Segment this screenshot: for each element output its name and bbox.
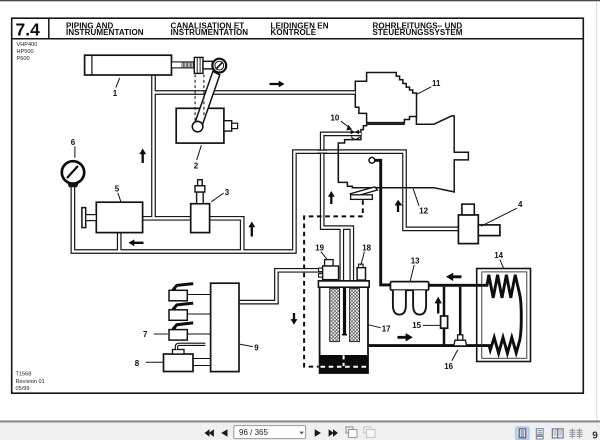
manifold stub lines — [188, 295, 211, 366]
pipe regulator3 to bottom run — [210, 218, 243, 251]
arrow right above pipe6 — [270, 81, 285, 88]
svg-text:VHP400: VHP400 — [17, 42, 38, 48]
svg-text:96 / 365: 96 / 365 — [239, 428, 268, 437]
svg-text:15: 15 — [412, 321, 421, 330]
unloader valve 11 — [355, 73, 416, 123]
arrow up beside cylinder riser — [139, 149, 146, 164]
valve seat dome — [351, 137, 359, 140]
svg-text:14: 14 — [494, 251, 503, 260]
hidden linkage dashes — [195, 75, 204, 121]
svg-text:11: 11 — [432, 79, 441, 88]
butterfly valve 10 — [351, 130, 355, 135]
svg-text:9: 9 — [254, 344, 259, 353]
toolbar — [0, 422, 600, 440]
svg-text:5: 5 — [115, 184, 120, 193]
layout continuous — [536, 429, 543, 435]
receiver box 5 — [96, 202, 142, 232]
svg-text:17: 17 — [382, 325, 391, 334]
pipe gauge-bottom-riser-rail-drop to valve4 — [73, 152, 458, 252]
pipe cooler return into sump — [361, 344, 366, 355]
patch air end left edge over rail — [337, 146, 339, 182]
cooler 14 frame — [477, 269, 531, 362]
pipe second tank descent — [339, 228, 344, 282]
layout two-up — [552, 429, 557, 438]
inlet funnel chute — [350, 187, 377, 197]
bold tap through valve15 — [443, 287, 446, 345]
nav prev — [221, 429, 227, 437]
crossing patch: rail lines over inlet duct riser — [318, 150, 328, 153]
air end 12 body — [338, 115, 468, 192]
pipe cylinder riser — [151, 75, 156, 219]
svg-text:3: 3 — [225, 188, 230, 197]
nav first-page — [209, 429, 214, 437]
svg-text:1: 1 — [113, 89, 118, 98]
nav last-page — [329, 429, 334, 437]
drain fitting 16 — [458, 335, 463, 340]
svg-text:19: 19 — [315, 243, 324, 252]
oil filter 13 — [390, 282, 428, 291]
min pressure valve 4 — [458, 215, 478, 244]
piston rod — [172, 62, 195, 68]
snapshot icon disabled — [367, 430, 376, 438]
manifold 9 — [211, 283, 239, 371]
layout two-up continuous — [570, 430, 583, 436]
svg-text:16: 16 — [444, 362, 453, 371]
leader lines — [75, 78, 517, 362]
svg-text:HP500: HP500 — [17, 49, 34, 55]
svg-text:INSTRUMENTATION: INSTRUMENTATION — [66, 28, 144, 37]
svg-text:9: 9 — [592, 431, 598, 440]
pressure regulator 3 — [191, 204, 210, 233]
pressure gauge 6 — [62, 161, 84, 183]
page field — [234, 426, 306, 439]
cylinder 1 — [85, 55, 172, 75]
bold scavenge line to filter13 — [375, 160, 391, 285]
pipe manifold9 to valve19 — [239, 270, 323, 302]
dip tube — [343, 287, 346, 334]
arrow up beside drop x404 — [395, 200, 403, 212]
arrow left above bottom run — [129, 239, 144, 246]
svg-text:2: 2 — [194, 161, 199, 170]
svg-text:STEUERUNGSSYSTEM: STEUERUNGSSYSTEM — [373, 28, 463, 37]
bold line filter13 to cooler with coils and return — [363, 275, 521, 354]
pipe runs: black outline then white core — [73, 75, 458, 356]
svg-text:Revision 01: Revision 01 — [16, 379, 45, 385]
nav next — [315, 429, 321, 437]
7.4 box divider — [48, 18, 50, 39]
ball joint — [212, 59, 226, 73]
arrow down beside dashed line — [291, 313, 298, 325]
snapshot icon — [349, 430, 358, 438]
governor box 2 — [176, 108, 224, 143]
window top edge — [0, 0, 600, 1]
svg-text:7.4: 7.4 — [16, 19, 41, 39]
header underline — [12, 38, 584, 40]
svg-text:6: 6 — [71, 138, 76, 147]
svg-text:10: 10 — [331, 113, 340, 122]
rod nut — [194, 57, 203, 73]
thermostatic valve 19 — [325, 260, 334, 266]
window right edge — [596, 1, 597, 421]
separator tank 17 — [320, 281, 368, 373]
bold arrow right above sump return — [398, 333, 413, 341]
bold arrow up beside valve15 — [435, 297, 442, 314]
scavenge port circle — [369, 157, 375, 163]
patch air end bottom edge over pipe — [400, 187, 410, 189]
svg-text:INSTRUMENTATION: INSTRUMENTATION — [171, 28, 249, 37]
lever arm — [194, 71, 220, 128]
svg-text:8: 8 — [135, 359, 140, 368]
svg-text:13: 13 — [411, 256, 420, 265]
drain valve 8 — [164, 354, 194, 372]
ball valve 7b — [169, 310, 187, 321]
svg-text:05/99: 05/99 — [16, 386, 30, 392]
separator element hatched left — [330, 289, 340, 342]
separator element hatched right — [350, 289, 360, 342]
link block — [203, 61, 212, 69]
tank top band — [318, 281, 369, 287]
ball valve 7c — [169, 330, 187, 341]
oil sump black — [320, 355, 368, 373]
pipe box5 to regulator3 — [143, 216, 191, 221]
pipe cylinder to valve11 — [154, 90, 356, 95]
arrow up beside drop x242 — [248, 222, 255, 237]
svg-text:12: 12 — [419, 206, 428, 215]
svg-text:T1568: T1568 — [16, 371, 32, 377]
svg-text:7: 7 — [143, 330, 148, 339]
bold tap to drain16 — [459, 287, 462, 339]
hidden line through sump — [321, 366, 368, 368]
lever pivot circle — [192, 121, 203, 132]
svg-text:18: 18 — [362, 243, 371, 252]
sensor 18 — [357, 268, 365, 281]
svg-text:KONTROLE: KONTROLE — [271, 28, 317, 37]
svg-text:P600: P600 — [17, 56, 30, 62]
pipe inlet duct down to tank — [322, 134, 361, 281]
inline valve 15 — [441, 316, 448, 328]
bold arrow left above cooler feed — [446, 273, 462, 281]
svg-text:4: 4 — [518, 200, 523, 209]
pipe branch from box5 — [117, 233, 122, 252]
ball valve 7a — [169, 290, 187, 301]
dashed control line from inlet funnel to sump — [304, 200, 363, 366]
layout single (selected) — [516, 427, 529, 440]
arrow up near tank risers — [328, 191, 335, 204]
